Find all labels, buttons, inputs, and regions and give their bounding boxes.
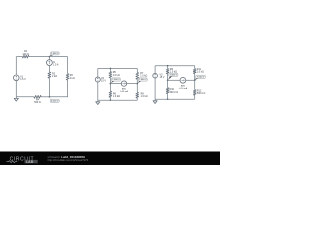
resistor R1 (top edge)	[22, 55, 29, 58]
svg-text:7.500 V: 7.500 V	[170, 75, 178, 77]
svg-text:7.500 V: 7.500 V	[197, 77, 205, 79]
wire: C3 right edge below bridge	[194, 80, 196, 89]
svg-text:LAB: LAB	[26, 160, 34, 164]
current source I1	[47, 60, 53, 66]
ground: C2	[97, 100, 99, 102]
wire: C1 left edge bottom segment	[15, 81, 17, 97]
svg-text:15 V: 15 V	[101, 80, 106, 83]
wire: C3 right edge top lead	[194, 66, 196, 69]
wire: C3 mid branch below bridge	[167, 80, 169, 87]
node: C2 bottom junction	[110, 99, 112, 101]
svg-text:15 V: 15 V	[160, 76, 165, 79]
svg-text:1.0 kΩ: 1.0 kΩ	[113, 95, 120, 98]
annotation: C1 bottom node voltage	[50, 97, 54, 102]
resistor R6 (C2 mid branch bottom)	[109, 91, 112, 97]
svg-text:2 kΩ: 2 kΩ	[70, 77, 75, 80]
resistor R3 (right branch)	[66, 74, 69, 80]
svg-text:1.5 A: 1.5 A	[53, 64, 59, 67]
wire: C2 left edge top segment	[97, 69, 99, 78]
wire: C3 top edge	[155, 65, 195, 67]
wire: C1 top edge right segment	[49, 56, 67, 58]
wire: C1 bottom edge left segment	[16, 96, 34, 98]
node: C2 mid bridge junction	[110, 83, 112, 85]
wire: C3 right edge bottom lead	[194, 95, 196, 99]
resistor R8 (C2 right branch bottom)	[136, 92, 139, 98]
wire: C1 right edge upper	[67, 57, 69, 74]
ammeter AM1	[121, 81, 126, 86]
svg-text:100 Ω: 100 Ω	[22, 53, 29, 56]
resistor R5 (C2 mid branch top)	[109, 72, 112, 78]
node: C3 right bridge junction	[194, 79, 196, 81]
node: C1 top-middle junction	[49, 56, 51, 58]
wire: C1 right edge lower	[49, 80, 67, 97]
CircuitLab logo zigzag	[7, 161, 18, 163]
wire: C3 bridge left segment	[168, 79, 180, 81]
wire: C2 mid branch below bridge	[109, 84, 111, 92]
wire: C1 middle branch bottom lead	[48, 78, 50, 97]
voltage source V1	[13, 75, 19, 81]
voltage source V2	[95, 77, 100, 82]
svg-text:500.0 Ω: 500.0 Ω	[170, 91, 179, 94]
wire: C2 bridge right segment	[127, 83, 138, 85]
ammeter AM2	[180, 77, 186, 83]
wire: C3 mid branch bottom lead	[167, 94, 169, 100]
node: C2 top junction	[110, 68, 112, 70]
wire: C2 bridge left segment	[110, 83, 121, 85]
annotation: C2 mid node voltage	[111, 79, 115, 83]
CircuitLab logo text LAB	[25, 160, 38, 163]
ground: C1	[15, 97, 17, 99]
svg-text:0.000 V: 0.000 V	[51, 101, 59, 103]
svg-text:1.5 V: 1.5 V	[20, 78, 26, 81]
annotation: C3 right node voltage	[194, 77, 199, 80]
resistor R12 (C3 right branch bottom)	[193, 90, 196, 96]
node: C3 top junction	[167, 65, 169, 67]
node: C3 mid bridge junction	[167, 79, 169, 81]
resistor R2 (middle branch)	[48, 72, 51, 78]
resistor R7 (C2 right branch top)	[136, 72, 139, 79]
wire: C3 bottom edge	[155, 98, 195, 100]
wire: C1 bottom edge right segment	[41, 96, 49, 98]
wire: C1 middle branch top lead	[48, 57, 50, 60]
wire: C3 mid branch to bridge	[167, 74, 169, 81]
svg-text:500.0 Ω: 500.0 Ω	[197, 92, 206, 95]
svg-text:7.500 V: 7.500 V	[139, 79, 147, 81]
wire: C3 bridge right segment	[186, 79, 195, 81]
svg-text:http://circuitlab.com/c/e5cwur: http://circuitlab.com/c/e5cwur7k76	[48, 158, 89, 162]
annotation: C3 mid node voltage	[168, 75, 172, 80]
wire: C2 right edge to bridge	[136, 79, 138, 83]
svg-text:1.0 kΩ: 1.0 kΩ	[140, 74, 147, 77]
wire: C3 left edge top segment	[154, 66, 156, 74]
annotation: C1 top node voltage	[50, 53, 54, 56]
svg-text:500 Ω: 500 Ω	[34, 101, 41, 104]
wire: C2 bottom edge	[98, 99, 138, 101]
wire: C2 mid branch top lead	[109, 69, 111, 72]
wire: C3 right edge to bridge	[194, 74, 196, 81]
resistor R9 (C3 mid branch top)	[166, 69, 169, 74]
wire: C1 left edge top segment	[15, 57, 17, 75]
wire: C2 left edge bottom segment	[97, 82, 99, 100]
svg-text:1.0 kΩ: 1.0 kΩ	[197, 71, 204, 74]
node: C3 bottom junction	[167, 98, 169, 100]
resistor R4 (bottom edge)	[34, 95, 41, 98]
svg-text:-0.50 mA: -0.50 mA	[179, 87, 188, 90]
svg-text:1.0 kΩ: 1.0 kΩ	[141, 95, 148, 98]
wire: C1 top edge left lead	[16, 56, 22, 58]
resistor R11 (C3 right branch top)	[193, 69, 196, 74]
svg-text:2 kΩ: 2 kΩ	[52, 75, 57, 78]
node: C1 bottom-middle junction	[49, 96, 51, 98]
svg-text:1.0 kΩ: 1.0 kΩ	[113, 74, 120, 77]
wire: C1 top edge middle segment	[29, 56, 49, 58]
footer bar	[0, 152, 220, 166]
node: C2 right bridge junction	[136, 83, 138, 85]
ground: C3	[154, 99, 156, 101]
wire: C2 right edge bottom lead	[136, 98, 138, 100]
wire: C2 mid branch to bridge	[109, 78, 111, 84]
resistor R10 (C3 mid branch bottom)	[166, 88, 169, 94]
annotation: C2 right node voltage	[138, 79, 142, 83]
wire: C2 right edge top lead	[136, 69, 138, 73]
wire: C2 right edge below bridge	[136, 84, 138, 93]
wire: C2 mid branch bottom lead	[109, 97, 111, 100]
svg-text:0.00 mA: 0.00 mA	[120, 90, 128, 93]
wire: C3 mid branch top lead	[167, 66, 169, 69]
wire: C1 middle branch mid lead	[48, 66, 50, 73]
wire: C3 left edge bottom segment	[154, 78, 156, 99]
voltage source V3	[153, 73, 158, 78]
wire: C2 top edge	[98, 68, 138, 70]
svg-text:1.500 V: 1.500 V	[51, 53, 59, 55]
svg-text:7.500 V: 7.500 V	[112, 79, 120, 81]
